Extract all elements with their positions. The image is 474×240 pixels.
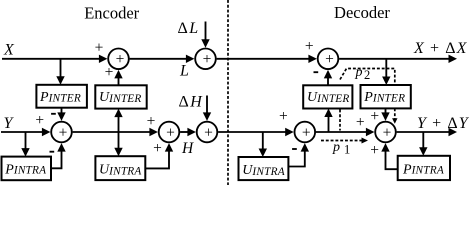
wire S4 to S5 <box>180 128 196 136</box>
svg-text:PINTRA: PINTRA <box>402 162 444 177</box>
svg-text:+: + <box>204 124 213 141</box>
wire X input to S1 <box>2 55 107 63</box>
box P_INTER encoder <box>36 85 87 108</box>
svg-text:+: + <box>325 51 334 68</box>
svg-text:+: + <box>116 51 125 68</box>
node X label <box>3 42 15 59</box>
svg-text:UINTER: UINTER <box>307 90 350 105</box>
summing junction S1 <box>108 49 129 70</box>
sign + at S8 top input <box>370 108 379 125</box>
svg-text:+: + <box>370 108 379 125</box>
node Y label <box>4 115 15 132</box>
svg-text:Y + ΔY: Y + ΔY <box>417 115 470 132</box>
wire H line tap down to U_INTRA decoder <box>259 132 267 157</box>
box P_INTRA decoder <box>398 156 450 180</box>
wire delta-H into S5 <box>203 96 211 121</box>
summing junction S8 <box>375 122 396 143</box>
box U_INTER encoder <box>95 85 146 108</box>
sign + at S8 bottom input <box>370 142 379 159</box>
svg-text:H: H <box>181 140 194 157</box>
wire U_INTRA encoder to S4 bottom <box>145 143 173 168</box>
box U_INTRA decoder <box>239 157 289 180</box>
svg-text:Encoder: Encoder <box>84 4 139 23</box>
svg-text:+: + <box>59 124 68 141</box>
sign + at S3 left input <box>35 112 44 129</box>
node H label <box>181 140 194 157</box>
sign + at S1 bottom input <box>105 64 114 81</box>
svg-text:1: 1 <box>344 142 350 156</box>
wire X output tap down to P_INTER decoder <box>382 59 390 85</box>
wire P_INTER encoder to S3 top <box>57 108 65 121</box>
box P_INTRA encoder <box>2 157 52 181</box>
svg-text:PINTER: PINTER <box>39 90 81 105</box>
label X+deltaX <box>413 40 468 57</box>
label delta-L <box>178 20 199 37</box>
node L label <box>179 62 189 79</box>
box U_INTER decoder <box>303 85 352 108</box>
svg-text:X: X <box>3 42 15 59</box>
sign + at S4 left input <box>147 113 156 130</box>
svg-text:+: + <box>153 140 162 157</box>
sign + at S4 bottom input <box>153 140 162 157</box>
svg-text:p: p <box>332 140 340 155</box>
wire branch up to U_INTER decoder <box>324 109 332 133</box>
svg-text:+: + <box>95 40 104 57</box>
sign - at S3 top input <box>51 113 56 115</box>
wire S3 to S4 <box>73 128 158 136</box>
summing junction S4 <box>159 122 180 143</box>
wire Y line tap down to P_INTRA encoder <box>21 132 29 157</box>
svg-text:UINTRA: UINTRA <box>242 163 285 178</box>
wire P_INTER decoder to S8 top <box>381 108 389 121</box>
svg-text:+: + <box>305 38 314 55</box>
wire S2 to decoder S6 <box>217 55 317 63</box>
svg-text:+: + <box>279 108 288 125</box>
svg-text:p: p <box>355 65 363 80</box>
wire X line tap down to P_INTER encoder <box>56 59 64 85</box>
svg-text:Decoder: Decoder <box>334 3 390 22</box>
wire U_INTER encoder to S1 bottom <box>114 70 122 85</box>
wire U_INTER decoder to S6 bottom <box>324 70 332 85</box>
label p2-bar <box>355 65 371 82</box>
summing junction S6 <box>318 49 339 70</box>
svg-text:UINTER: UINTER <box>99 90 142 105</box>
wire U_INTRA decoder to S7 bottom <box>288 143 309 166</box>
dashed path p1-bar horizontal into S8 <box>321 138 368 144</box>
svg-text:+: + <box>35 112 44 129</box>
svg-text:+: + <box>147 113 156 130</box>
svg-text:+: + <box>356 114 365 131</box>
dashed path p2-bar lower into S8 <box>392 108 397 123</box>
dashed path p1-bar vertical <box>339 110 341 131</box>
wire S7 to S8 <box>316 128 375 136</box>
wire S6 to X+dX output <box>339 55 457 63</box>
box P_INTER decoder <box>361 85 411 108</box>
svg-text:2: 2 <box>364 68 370 82</box>
label delta-H <box>179 93 204 110</box>
wire P_INTRA encoder to S3 bottom <box>51 143 66 168</box>
svg-text:+: + <box>166 124 175 141</box>
sign + at S6 left input <box>305 38 314 55</box>
wire S5 to decoder S7 <box>218 128 294 136</box>
label p1-bar <box>332 140 350 157</box>
wire delta-L into S2 <box>201 22 209 48</box>
summing junction S7 <box>295 122 316 143</box>
svg-text:PINTRA: PINTRA <box>4 162 46 177</box>
sign + at S1 left input <box>95 40 104 57</box>
summing junction S3 <box>51 122 72 143</box>
svg-text:UINTRA: UINTRA <box>99 163 142 178</box>
encoder/decoder boundary (dashed) <box>227 0 229 185</box>
wire S1 to S2 <box>130 55 195 63</box>
wire S8 to Y+dY output <box>397 128 457 136</box>
summing junction S5 <box>197 122 218 143</box>
svg-text:+: + <box>105 64 114 81</box>
svg-text:+: + <box>370 142 379 159</box>
wire P_INTRA decoder to S8 bottom <box>381 143 397 169</box>
sign + at S7 left input <box>279 108 288 125</box>
svg-text:+: + <box>383 124 392 141</box>
label Encoder <box>84 4 139 23</box>
sign - at S7 bottom input <box>292 148 297 150</box>
sign + at S8 left input <box>356 114 365 131</box>
svg-text:+: + <box>302 124 311 141</box>
sign - at S6 bottom input <box>314 71 319 73</box>
sign - at S3 bottom input <box>50 151 55 153</box>
svg-text:PINTER: PINTER <box>363 90 405 105</box>
svg-text:X + ΔX: X + ΔX <box>413 40 468 57</box>
dashed path p2-bar upper <box>340 69 395 83</box>
svg-text:ΔH: ΔH <box>179 93 204 110</box>
wire Y input to S3 <box>1 128 50 136</box>
box U_INTRA encoder <box>95 156 145 180</box>
svg-text:+: + <box>203 51 212 68</box>
label Decoder <box>334 3 390 22</box>
summing junction S2 <box>195 49 216 70</box>
wire branch down to U_INTRA encoder <box>114 132 122 156</box>
wire branch up to U_INTER encoder <box>114 109 122 132</box>
svg-text:L: L <box>179 62 189 79</box>
wire Y output tap down to P_INTRA decoder <box>419 132 427 156</box>
label Y+deltaY <box>417 115 470 132</box>
